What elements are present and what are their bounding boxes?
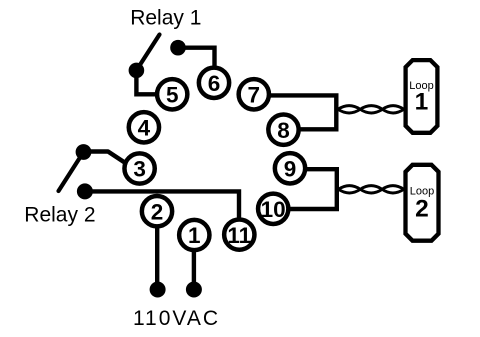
svg-text:10: 10 xyxy=(261,197,286,222)
terminal 11 xyxy=(224,219,254,249)
svg-text:6: 6 xyxy=(208,71,221,96)
110VAC terminal dot left xyxy=(150,282,166,298)
svg-text:1: 1 xyxy=(188,223,201,248)
wire relay2 upper contact to pin 3 xyxy=(84,152,140,169)
wire pin 1 to 110VAC xyxy=(192,235,196,283)
terminal 9 xyxy=(275,153,305,183)
110VAC terminal dot right xyxy=(186,282,202,298)
terminal 10 xyxy=(258,194,288,224)
twisted pair to loop 2 xyxy=(339,186,404,193)
terminal 2 xyxy=(142,196,172,226)
svg-text:2: 2 xyxy=(415,196,429,223)
wire relay1 NO contact to pin 6 xyxy=(178,48,215,83)
terminal 7 xyxy=(239,79,269,109)
wire relay2 common to pin 11 xyxy=(85,191,239,234)
loop 1 sensor symbol xyxy=(406,60,438,133)
svg-text:Relay 1: Relay 1 xyxy=(130,7,201,30)
svg-text:8: 8 xyxy=(277,118,290,143)
wire bracket pins 9-10 to loop 2 xyxy=(273,169,337,209)
terminal 5 xyxy=(157,79,187,109)
wire bracket pins 7-8 to loop 1 xyxy=(254,95,336,129)
relay 1 contact dot (to pin 6) xyxy=(170,40,186,56)
svg-text:4: 4 xyxy=(138,116,151,141)
svg-text:11: 11 xyxy=(227,223,251,248)
relay 1 switch arm xyxy=(136,35,159,71)
terminal 4 xyxy=(129,112,159,142)
svg-text:Relay 2: Relay 2 xyxy=(24,203,95,226)
terminal 8 xyxy=(268,115,298,145)
svg-text:2: 2 xyxy=(151,199,164,224)
relay 2 contact dot (common) xyxy=(77,183,93,199)
relay 2 contact dot (to pin 3) xyxy=(76,144,92,160)
svg-text:9: 9 xyxy=(284,157,297,182)
wire pin 2 to 110VAC xyxy=(155,211,159,283)
svg-text:3: 3 xyxy=(133,157,146,182)
relay 2 switch arm xyxy=(59,152,84,191)
svg-text:110VAC: 110VAC xyxy=(133,307,220,330)
svg-text:1: 1 xyxy=(415,89,429,116)
twisted pair to loop 1 xyxy=(338,106,404,113)
terminal 1 xyxy=(179,220,209,250)
terminal 6 xyxy=(199,68,229,98)
svg-text:7: 7 xyxy=(248,83,261,108)
loop 2 sensor symbol xyxy=(406,165,439,241)
terminal 3 xyxy=(124,153,154,183)
svg-text:5: 5 xyxy=(166,83,179,108)
relay 1 contact dot (common) xyxy=(129,63,145,79)
wire relay1 common to pin 5 xyxy=(136,63,172,94)
